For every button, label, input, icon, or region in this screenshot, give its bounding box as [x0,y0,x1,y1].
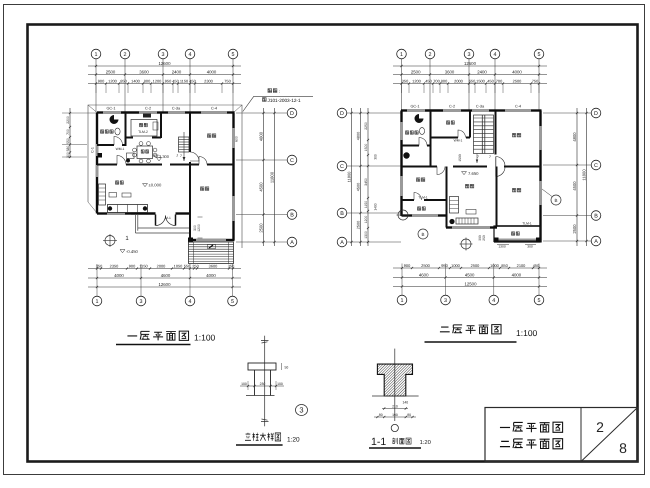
datum circle [391,424,398,431]
svg-text:1500: 1500 [458,154,462,162]
bathroom fixtures (plan 1) [110,115,119,124]
ground line [372,395,419,397]
axis bubble D right side (plan 1) [287,108,297,118]
left dimension chain (plan 1) [69,108,71,158]
dim 50 [281,363,283,370]
axis bubble D right side (plan 2) [591,108,601,118]
coffee table (plan 1) [109,193,117,198]
svg-text:3600: 3600 [139,69,149,74]
svg-text:4800: 4800 [572,132,577,142]
svg-text:TLM-1: TLM-1 [418,196,428,200]
west outer wall (plan 2) [400,111,402,123]
svg-text:4: 4 [189,52,192,58]
bedroom NE label (plan 2) [512,133,516,137]
living cabinet (plan 2) [450,197,459,214]
north outer wall (plan 2) [401,109,407,111]
svg-text:1-1: 1-1 [371,436,386,448]
svg-text:850: 850 [501,263,508,268]
svg-text:650: 650 [469,78,476,83]
svg-text:C-3a: C-3a [172,107,181,111]
level mark 0.000 (plan 1) [143,184,148,187]
kitchen label (plan 1) [139,123,142,127]
svg-text:1:20: 1:20 [420,439,431,446]
svg-text:2500: 2500 [258,223,263,233]
axis bubble 5 top (plan 2) [534,49,544,59]
living room sofa (plan 1) [108,205,148,213]
svg-text:300: 300 [527,245,533,249]
axis bubble 3 top (plan 1) [158,49,168,59]
axis bubble A right side (plan 2) [591,236,601,246]
axis bubble D left side (plan 2) [337,108,347,118]
svg-text:12600: 12600 [159,61,172,66]
bottom axis bubble 5 (plan 2) [538,264,540,296]
small balcony label (plan 2) [417,207,420,211]
svg-text:450: 450 [487,78,494,83]
svg-text:250: 250 [482,235,486,241]
svg-text:7.650: 7.650 [468,171,479,176]
axis line 5 (plan 1) [232,59,234,112]
svg-text:3: 3 [299,406,303,415]
svg-text:C-4: C-4 [515,105,521,109]
svg-text:1500: 1500 [364,144,368,152]
svg-text:11800: 11800 [581,169,586,181]
caption: second floor plan 1:100 [440,327,450,332]
caption: column detail 1:20 [245,433,251,441]
svg-text:A: A [290,240,294,246]
bedroom2 label (plan 1) [200,187,204,191]
column detail figure [236,336,308,445]
svg-text:250: 250 [192,263,199,268]
svg-text:700: 700 [66,129,70,135]
svg-text:800: 800 [441,78,448,83]
svg-text:3: 3 [140,299,143,305]
south wall living section (plan 2) [446,226,452,228]
axis bubble 3 top (plan 2) [464,49,474,59]
svg-text:700: 700 [433,78,440,83]
svg-text:B: B [290,212,294,218]
bedroom1/bedroom2 divider wall (plan 1) [190,164,199,166]
svg-text:850: 850 [120,78,127,83]
svg-text:2500: 2500 [356,221,360,229]
axis bubble 2 top (plan 1) [120,49,130,59]
side table left of dining (plan 1) [127,153,135,159]
top dimension row 2500/3600/2400/4000 (plan 2) [393,74,547,76]
svg-text:±0.000: ±0.000 [149,183,162,188]
svg-text:450: 450 [425,78,432,83]
door arcs on mid wall (plan 2) [437,167,445,175]
svg-text:1400: 1400 [374,203,378,210]
svg-text:1:20: 1:20 [287,437,300,444]
east wing south wall (plan 2) [496,225,541,227]
stairwell west wall (plan 2) [469,111,471,138]
svg-text:D: D [290,111,294,117]
north outer wall (plan 1) [97,111,103,113]
kitchen south wall (plan 1) [126,137,134,139]
svg-text:750: 750 [224,78,231,83]
axis bubble A left side (plan 2) [337,237,347,247]
svg-text:8: 8 [619,440,627,456]
svg-text:B: B [421,232,424,237]
svg-text:C: C [594,163,598,169]
svg-text:1300: 1300 [364,231,368,239]
axis bubble C left side (plan 2) [337,161,347,171]
svg-text:1200: 1200 [364,216,368,224]
svg-text:1150: 1150 [139,263,148,268]
svg-text:WM-1: WM-1 [116,147,125,151]
bedroom SE label (plan 2) [512,188,516,192]
living room cabinet (plan 1) [99,184,106,205]
svg-text:140: 140 [403,401,409,405]
svg-text:4: 4 [494,52,497,58]
axis bubble 1 top (plan 1) [91,49,101,59]
hall partition wall (plan 1) [97,164,117,166]
svg-text:450: 450 [172,78,179,83]
svg-text::: : [279,89,280,94]
roof overhang outline (plan 1) [88,105,242,248]
svg-text:1150: 1150 [364,201,368,208]
svg-text:J101-2003-12-1: J101-2003-12-1 [268,98,301,103]
svg-text:950: 950 [441,263,448,268]
svg-text:350: 350 [228,263,235,268]
svg-text:A: A [594,239,598,245]
bottom axis bubble 5 (plan 1) [232,264,234,296]
svg-text:300: 300 [374,154,378,160]
dining table and chairs (plan 1) [133,142,157,163]
svg-text:12600: 12600 [159,282,172,287]
svg-text:2: 2 [596,419,604,435]
axis bubble A right side (plan 1) [287,237,297,247]
svg-text:3: 3 [162,52,165,58]
axis bubble C right side (plan 1) [287,155,297,165]
svg-text:2500: 2500 [471,263,480,268]
level mark 7.650 (plan 2) [462,172,467,175]
svg-text:3600: 3600 [209,263,218,268]
svg-text:700: 700 [496,78,503,83]
svg-text:7: 7 [180,154,182,158]
west outer wall (plan 1) [96,113,98,145]
svg-text:TLM-2: TLM-2 [138,130,148,134]
svg-text:80: 80 [407,413,411,417]
svg-text:350: 350 [402,78,409,83]
east outer wall (plan 1) [232,113,234,129]
svg-text:2000: 2000 [454,78,463,83]
svg-text:100: 100 [277,382,283,386]
svg-text:4500: 4500 [465,272,475,277]
column dims [240,385,284,387]
axis bubble 5 top (plan 1) [228,49,238,59]
svg-text:4: 4 [492,298,495,304]
svg-text:1400: 1400 [131,78,140,83]
closet label (plan 2) [446,121,449,125]
svg-text:C-1: C-1 [91,147,95,153]
svg-text:4000: 4000 [114,273,124,278]
svg-text:750: 750 [532,78,539,83]
svg-text:B: B [554,198,557,203]
kitchen counter (plan 1) [131,120,157,137]
svg-text:900: 900 [404,263,411,268]
window C-1 in west wall (plan 1) [96,144,98,156]
south wall of living room (plan 1) [97,212,107,214]
svg-text:4500: 4500 [356,183,360,191]
svg-text:2500: 2500 [513,78,522,83]
mid horizontal wall (plan 2) [402,166,438,168]
svg-text:210: 210 [392,404,398,408]
svg-text:1150: 1150 [180,78,189,83]
svg-text:2100: 2100 [517,263,526,268]
living east wall (plan 2) [496,167,498,227]
entry double door leaves and arcs (plan 1) [155,215,157,226]
svg-text:4500: 4500 [572,181,577,191]
svg-text:3600: 3600 [445,69,455,74]
svg-text:C: C [290,158,294,164]
svg-text:230: 230 [260,382,266,386]
svg-text:J: J [176,154,178,158]
svg-text:4800: 4800 [258,131,263,141]
svg-text:1300: 1300 [498,245,506,249]
bathroom fixtures (plan 2) [415,114,424,123]
living west wall (plan 2) [446,167,448,228]
svg-text:C: C [340,164,344,170]
dining level triangle (plan 1) [157,158,162,162]
bathroom south wall (plan 1) [97,144,114,146]
outdoor steps (plan 1) [189,242,234,264]
bottom dimension row 4000/4600/4000 (plan 1) [88,277,241,279]
svg-text:D: D [340,111,344,117]
left dimension chain (plan 2) [367,108,369,246]
bedroom2 west wall (plan 1) [189,162,191,240]
svg-text:100: 100 [241,382,247,386]
bathroom label (plan 1) [100,130,103,134]
svg-text:4600: 4600 [161,273,171,278]
bathroom door arc (plan 1) [114,137,123,146]
svg-text:600: 600 [235,136,239,142]
svg-text:4000: 4000 [512,272,522,277]
tv stand (plan 2) [456,218,478,224]
svg-text:2400: 2400 [477,69,487,74]
svg-text:80: 80 [379,413,383,417]
bottom overall dimension 12600 (plan 1) [88,286,241,288]
bottom axis bubble 3 (plan 1) [140,264,142,296]
right dimension chain (plan 2) [576,108,578,246]
svg-text:11800: 11800 [346,171,351,183]
axis bubble 4 top (plan 2) [490,49,500,59]
svg-text:1500: 1500 [476,78,485,83]
svg-text:GC-1: GC-1 [106,107,115,111]
detail circle with leader (plan 2) [551,195,561,205]
svg-text:2400: 2400 [172,69,182,74]
svg-text:4000: 4000 [512,69,522,74]
bathroom south wall (plan 2) [402,145,420,147]
stair hall west wall (plan 1) [189,113,191,153]
svg-text:4000: 4000 [207,69,217,74]
svg-text:A: A [340,240,344,246]
axis bubble 1 top (plan 2) [397,49,407,59]
svg-text:WM-1: WM-1 [454,139,463,143]
axis line 1 (plan 1) [95,59,97,112]
level mark -0.450 (plan 1) [120,250,125,253]
svg-text:4500: 4500 [258,182,263,192]
axis bubble 4 top (plan 1) [185,49,195,59]
svg-text:450: 450 [189,78,196,83]
axis bubble B right side (plan 2) [591,211,601,221]
bedroom1 door arc (plan 1) [190,152,199,161]
section 1-1 detail figure [369,349,431,448]
bottom axis bubble 3 (plan 2) [445,264,447,296]
south wall of bedroom 2 (plan 1) [189,239,197,241]
svg-text:4800: 4800 [356,132,360,140]
axis line 4 (plan 1) [189,59,191,112]
small balcony top wall (plan 2) [402,199,415,201]
svg-text:4600: 4600 [419,272,429,277]
svg-text:2350: 2350 [110,263,119,268]
svg-text:2: 2 [124,52,127,58]
svg-text:1200: 1200 [197,224,201,232]
svg-text:1200: 1200 [153,78,162,83]
svg-text:4: 4 [189,299,192,305]
kitchen east wall (plan 1) [160,113,162,139]
axis bubble B right side (plan 1) [287,210,297,220]
bottom axis bubble 4 (plan 2) [493,264,495,296]
svg-text:4000: 4000 [206,273,216,278]
detail number circle 3 [296,405,308,416]
axis bubble B left side (plan 2) [337,208,347,218]
bottom small dimension row (plan 2) [393,267,547,269]
svg-text:550: 550 [66,138,70,144]
svg-text:190: 190 [392,413,398,417]
svg-text:2500: 2500 [421,263,430,268]
bathroom east wall (plan 1) [125,113,127,147]
note leader line [243,96,313,111]
title block [485,408,638,462]
svg-text:1200: 1200 [108,78,117,83]
top overall dimension 12600 (plan 2) [393,65,547,67]
svg-text:B: B [340,211,344,217]
right dimension chain 4800/4500/2500 + 11800 (plan 1) [263,108,265,246]
svg-text:1050: 1050 [174,263,183,268]
svg-text:5: 5 [231,299,234,305]
svg-text:50: 50 [285,366,289,370]
svg-text:-0.450: -0.450 [126,249,139,254]
bathroom east wall (plan 2) [430,111,432,147]
svg-text:2500: 2500 [106,69,116,74]
axis line 3 (plan 1) [162,59,164,112]
svg-text:800: 800 [144,78,151,83]
top overall dimension 12600 (plan 1) [88,65,241,67]
svg-text:3: 3 [468,52,471,58]
bottom axis bubble 1 (plan 2) [401,264,403,296]
bedroom1 label (plan 1) [207,134,211,138]
hall door arc (plan 1) [117,156,126,165]
svg-text:C-2: C-2 [449,105,455,109]
svg-text:3: 3 [444,298,447,304]
svg-text:3450: 3450 [364,178,368,186]
svg-text:D: D [594,111,598,117]
column at porch corner (plan 1) [188,238,193,243]
closet south wall (plan 2) [431,137,459,139]
hatched T-section [377,364,412,396]
svg-text:C-2: C-2 [145,107,151,111]
staircase (plan 1) [179,132,190,161]
balcony south-east (plan 2) [494,222,541,243]
entry porch slab (plan 1) [136,215,191,233]
svg-text:1000: 1000 [451,263,460,268]
east outer wall (plan 2) [539,111,541,127]
axis bubble 2 top (plan 2) [425,49,435,59]
range hood (plan 1) [143,114,151,118]
svg-text:2500: 2500 [572,224,577,234]
column block west wall (plan 1) [98,153,103,158]
svg-text:1: 1 [400,52,403,58]
bedroom W label (plan 2) [416,178,420,182]
construction note text (plan 1) [243,89,313,112]
living room label (plan 1) [115,181,118,185]
svg-text:C-3a: C-3a [476,105,485,109]
bottom overall dimension 12500 (plan 2) [393,286,547,288]
svg-text:GC-1: GC-1 [410,105,419,109]
caption: first floor plan 1:100 [127,335,137,337]
svg-text:11800: 11800 [269,171,274,183]
staircase (plan 2) [458,115,494,163]
svg-text:2200: 2200 [66,116,70,124]
svg-text:TLM-1: TLM-1 [522,222,532,226]
svg-text:B: B [594,213,598,219]
svg-text:2: 2 [429,52,432,58]
stairwell east wall (plan 2) [495,111,497,155]
detail circles (plan 2) [398,210,408,220]
top dimension row small (plan 2) [393,83,547,85]
bedroom2 door leaf (plan 1) [199,157,207,165]
bottom dimension row 4600/4500/4000 (plan 2) [393,277,547,279]
detail marker circle (plan 1) [105,236,115,246]
svg-text:12500: 12500 [465,281,478,286]
south wall left section (plan 2) [402,214,413,216]
second-floor plan group [337,49,601,342]
laundry east wall (plan 2) [430,146,432,168]
svg-text:1: 1 [95,52,98,58]
axis line 2 (plan 1) [124,59,126,112]
living room label (plan 2) [465,184,469,188]
svg-text:1000: 1000 [490,263,499,268]
top dimension row 2500/3600/2400/4000 (plan 1) [88,74,241,76]
column shaft [254,370,256,396]
column capital rect [248,363,276,370]
svg-text:950: 950 [165,78,172,83]
svg-text:1:100: 1:100 [516,328,538,338]
svg-text:5: 5 [538,52,541,58]
svg-text:2300: 2300 [204,78,213,83]
bottom axis bubble 1 (plan 1) [96,264,98,296]
svg-text:1:100: 1:100 [194,333,216,343]
svg-text:900: 900 [98,78,105,83]
bottom small dimension row (plan 1) [88,268,241,270]
svg-text:1: 1 [401,298,404,304]
svg-text:7: 7 [477,155,479,159]
svg-text:12600: 12600 [464,61,477,66]
svg-text:2250: 2250 [364,122,368,130]
svg-text:1: 1 [96,299,99,305]
svg-text:3.300: 3.300 [159,154,170,159]
svg-text:5: 5 [538,298,541,304]
windows in north wall (plan 1) [103,112,121,114]
first-floor plan group [62,49,313,344]
svg-text:C-4: C-4 [211,107,217,111]
svg-text:M-1: M-1 [165,216,171,220]
svg-text:2000: 2000 [157,263,166,268]
svg-text:900: 900 [129,263,136,268]
laundry fixture (plan 2) [403,152,409,158]
svg-text:1200: 1200 [412,78,421,83]
svg-text:5: 5 [232,52,235,58]
